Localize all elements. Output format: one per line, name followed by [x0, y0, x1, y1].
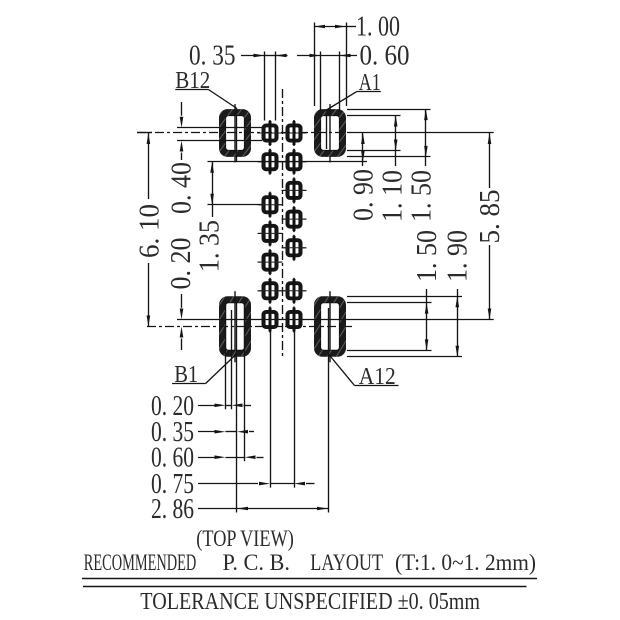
label A12 with leader	[329, 354, 399, 390]
dimension 0.90 (row1 to row2 pitch)	[348, 133, 379, 221]
dimension 1.35 (row2 to B column row3 pitch)	[194, 162, 225, 272]
dimension 1.10 (A1 copper height)	[377, 116, 408, 223]
ext line A1 outer left (1.00)	[314, 23, 316, 107]
row 1 extension line to 0.90/5.85 dims	[348, 132, 494, 134]
ext line A1 outer right (1.00)	[346, 23, 348, 107]
ext line A pad column center (0.75)	[294, 312, 296, 488]
dimension 0.75 (column pitch)	[151, 469, 315, 500]
row 3 (B column) line	[208, 204, 263, 206]
ext line B pad column center (0.75)	[270, 312, 272, 488]
dimension 1.90 (A12 outer height)	[443, 230, 474, 357]
ext line A12 outer top	[347, 296, 462, 298]
label A1 with leader	[327, 70, 381, 149]
ext line 0.35 offset / 2.86 left	[236, 303, 238, 513]
extension line small pad bottom edge (0.40)	[177, 140, 262, 142]
pad A5	[282, 206, 307, 232]
dimension 1.50 (A12 copper height)	[412, 230, 443, 350]
horizontal centerline bottom corner pad centers	[147, 326, 352, 328]
dimension 0.20 (row12 to bottom pad center offset)	[166, 238, 197, 351]
row 12 line	[177, 319, 494, 321]
pad B12 (corner shield pad)	[163, 99, 285, 167]
pad B2	[258, 307, 283, 333]
dimension 0.40 (small pad copper height)	[166, 102, 197, 214]
svg-text:RECOMMENDED: RECOMMENDED	[84, 550, 197, 575]
svg-text:LAYOUT: LAYOUT	[310, 550, 383, 575]
pad A12 (corner shield pad)	[258, 286, 380, 367]
svg-text:0. 20: 0. 20	[166, 238, 197, 290]
pad A3	[282, 149, 307, 175]
ext line A12 copper top	[347, 302, 432, 304]
svg-text:0. 35: 0. 35	[189, 41, 236, 72]
horizontal centerline row1 / corner pad centers y=133	[137, 132, 348, 134]
ext line A12 copper bottom	[347, 350, 432, 352]
ext line B1 copper right edge (0.60)	[244, 303, 246, 461]
pad A7	[282, 278, 307, 304]
svg-text:P. C. B.: P. C. B.	[223, 550, 291, 575]
vertical centerline of footprint	[282, 89, 284, 358]
pad B11	[258, 120, 283, 146]
pad B7	[258, 249, 283, 275]
svg-text:0. 60: 0. 60	[360, 41, 410, 72]
svg-text:TOLERANCE UNSPECIFIED ±0. 05mm: TOLERANCE UNSPECIFIED ±0. 05mm	[140, 589, 480, 615]
label B12 with leader	[175, 68, 237, 161]
pad A4	[282, 177, 307, 203]
dimension 0.35 (bottom)	[151, 417, 254, 448]
svg-text:2. 86: 2. 86	[151, 494, 194, 525]
pad B1 (corner shield pad)	[163, 286, 285, 367]
dimension 1.50 (A1 outer height)	[406, 109, 437, 222]
pad A11	[282, 307, 307, 333]
label B1 with leader	[172, 354, 237, 389]
ext line A1 copper right (0.60)	[339, 52, 341, 113]
dimension 0.35 (small pad copper width)	[189, 41, 288, 72]
ext line A1 outer bottom	[347, 156, 431, 158]
svg-text:(TOP VIEW): (TOP VIEW)	[196, 526, 293, 551]
ext line A1 copper bottom	[347, 150, 401, 152]
caption RECOMMENDED P.C.B. LAYOUT	[84, 550, 536, 575]
svg-text:1. 00: 1. 00	[356, 12, 400, 43]
ext line A1 outer top	[347, 109, 431, 111]
ext line B1 copper left edge (baseline for 0.20/0.35/0.60)	[225, 303, 227, 409]
pad B6	[258, 278, 283, 304]
pad A1 (corner shield pad)	[258, 99, 380, 167]
dimension 1.00 (A1 pad outer width)	[314, 12, 400, 43]
ext line 0.20 offset	[231, 310, 233, 409]
rule under recommended line	[82, 578, 537, 580]
ext line B column pad copper right (0.35)	[275, 52, 277, 121]
dimension 5.85 (row1 to row12 overall)	[475, 133, 506, 320]
svg-text:6. 10: 6. 10	[135, 204, 166, 258]
pad A6	[282, 235, 307, 261]
svg-text:5. 85: 5. 85	[475, 190, 506, 244]
ext line A1 copper left (0.60)	[320, 52, 322, 113]
ext line B column pad copper left (0.35)	[264, 52, 266, 121]
svg-text:0. 40: 0. 40	[166, 162, 197, 214]
pad B10	[258, 149, 283, 175]
pad B8	[258, 220, 283, 246]
dimension 6.10 (overall row1 to bottom pad center)	[135, 133, 166, 327]
pad B9	[258, 192, 283, 218]
ext line A1 copper top	[347, 115, 401, 117]
row 2 line	[208, 161, 368, 163]
svg-text:1. 90: 1. 90	[443, 230, 474, 282]
dimension 0.20 (bottom, copper-left to first offset)	[151, 391, 251, 422]
svg-text:(T:1. 0~1. 2mm): (T:1. 0~1. 2mm)	[395, 550, 536, 575]
rule above tolerance line	[83, 586, 527, 588]
ext line 2.86 right	[328, 308, 330, 513]
svg-text:1. 50: 1. 50	[412, 230, 443, 282]
dimension 0.60 (bottom)	[151, 443, 264, 474]
pad A2	[282, 120, 307, 146]
ext line A12 outer bottom	[347, 356, 462, 358]
extension line small pad top edge (0.40)	[177, 127, 262, 129]
svg-text:1. 50: 1. 50	[406, 170, 437, 222]
svg-text:1. 35: 1. 35	[194, 220, 225, 272]
dimension 0.60 (A1 copper width)	[297, 41, 410, 72]
dimension 2.86 (overall corner pad span)	[151, 494, 328, 525]
svg-text:1. 10: 1. 10	[377, 170, 408, 222]
svg-text:0. 90: 0. 90	[348, 169, 379, 221]
